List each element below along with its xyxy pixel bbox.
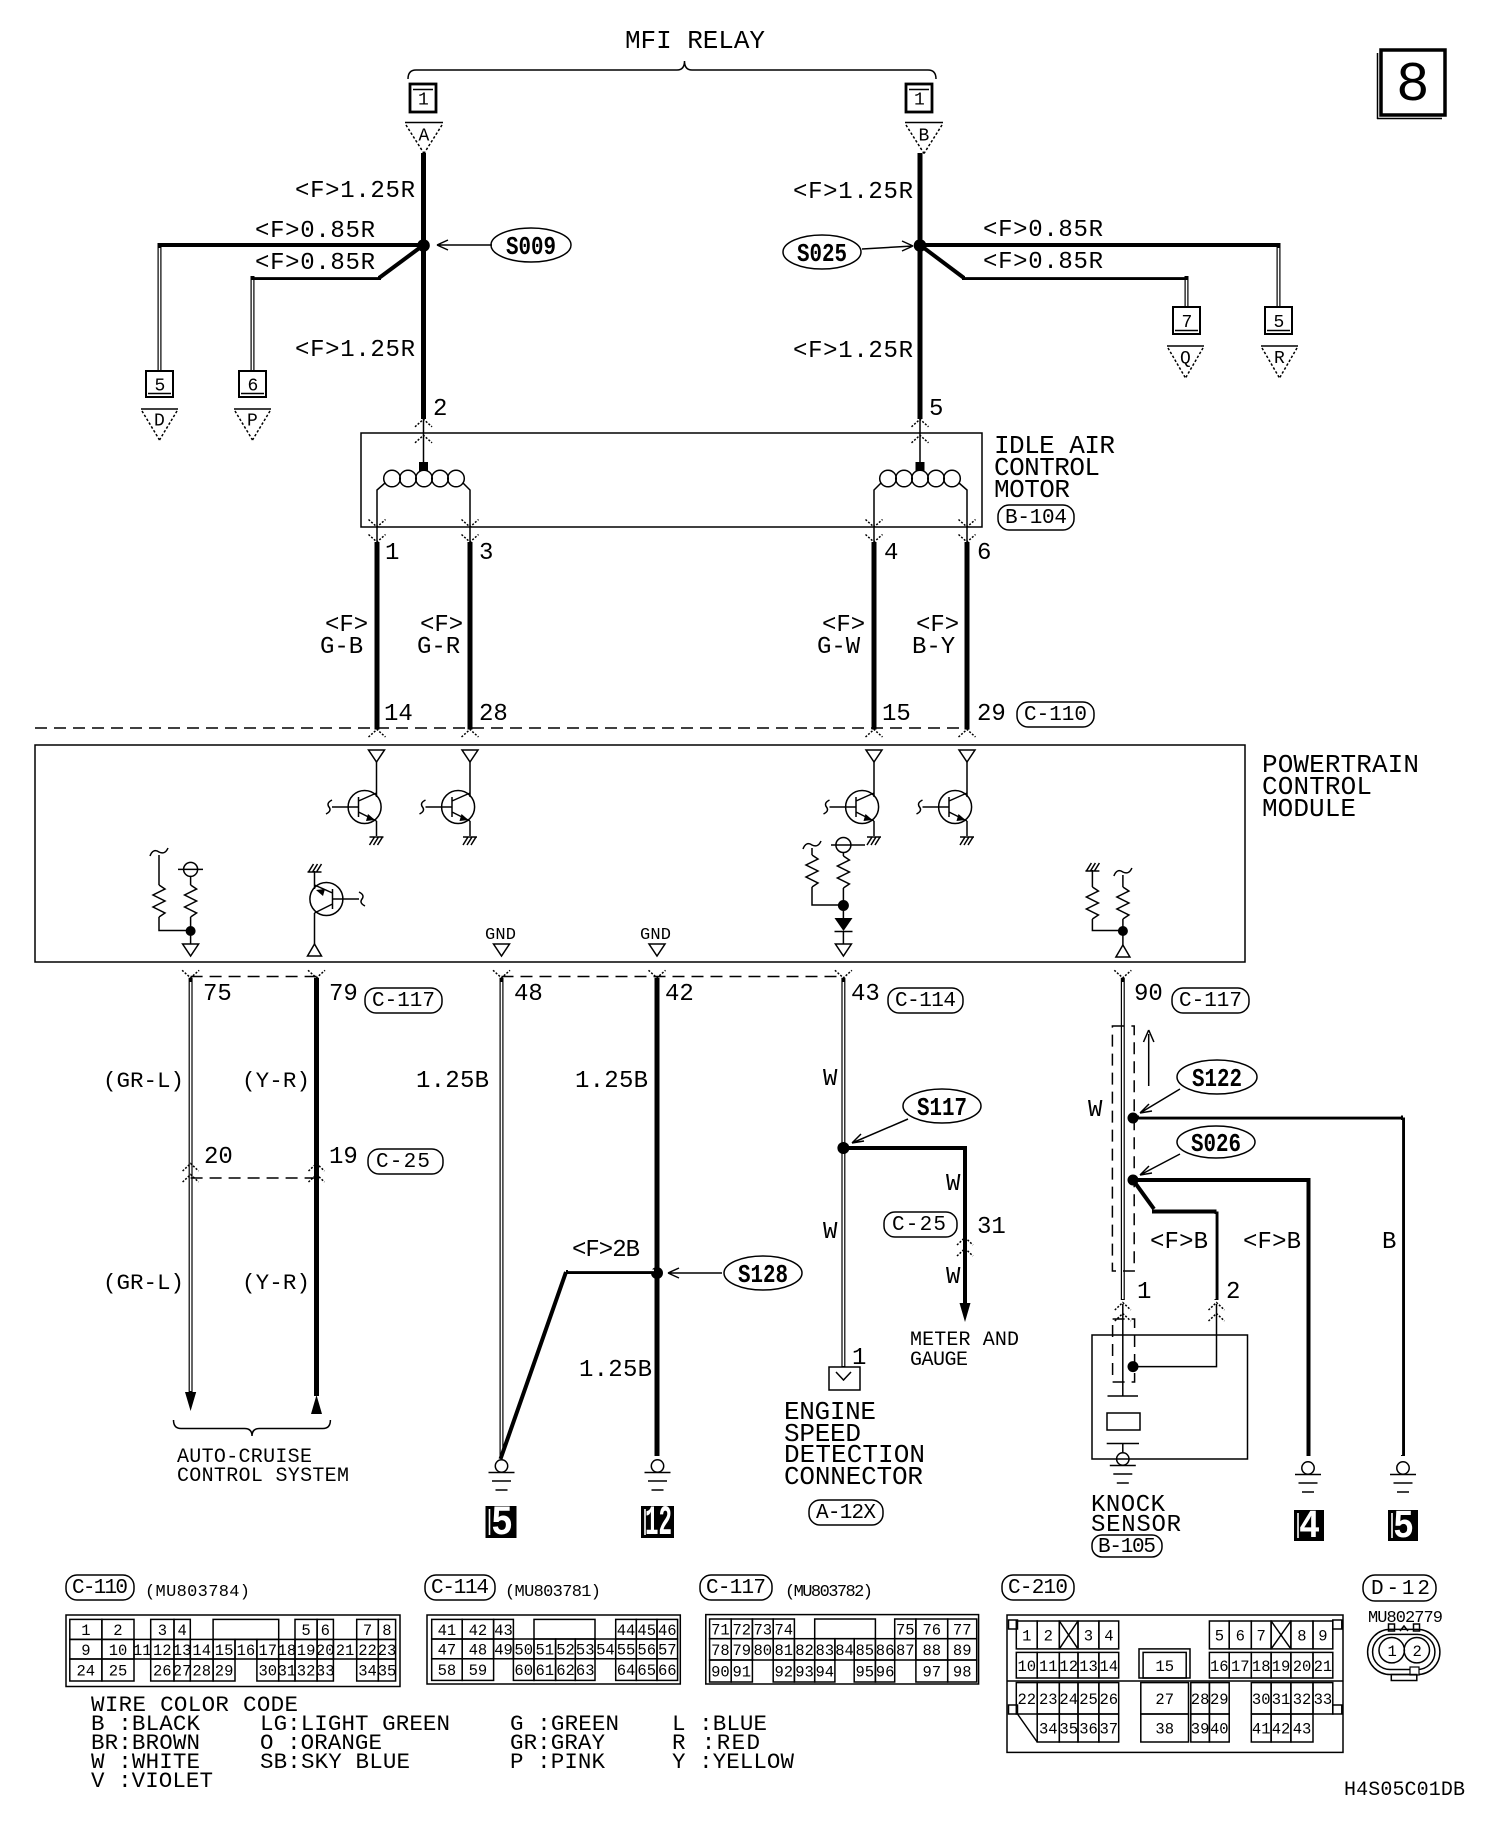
svg-text:W: W	[823, 1066, 838, 1093]
svg-text:18: 18	[278, 1642, 297, 1660]
svg-text:14: 14	[192, 1642, 211, 1660]
svg-text:(MU803782): (MU803782)	[785, 1583, 873, 1602]
svg-text:13: 13	[173, 1642, 192, 1660]
svg-text:6: 6	[977, 540, 991, 567]
svg-text:98: 98	[953, 1664, 972, 1682]
svg-text:(MU803784): (MU803784)	[145, 1583, 250, 1602]
svg-text:23: 23	[378, 1642, 397, 1660]
svg-text:C-114: C-114	[895, 990, 956, 1013]
svg-text:30: 30	[1252, 1691, 1271, 1709]
svg-text:8: 8	[1297, 1628, 1306, 1646]
svg-text:S128: S128	[738, 1260, 788, 1290]
svg-text:53: 53	[576, 1642, 595, 1660]
svg-text:10: 10	[1018, 1658, 1037, 1676]
svg-text:1.25B: 1.25B	[575, 1068, 648, 1095]
svg-text:34: 34	[1039, 1721, 1058, 1739]
svg-text:S122: S122	[1192, 1064, 1242, 1094]
svg-text:31: 31	[278, 1663, 297, 1681]
svg-text:28: 28	[1191, 1691, 1210, 1709]
svg-text:MODULE: MODULE	[1262, 794, 1356, 824]
svg-text:32: 32	[1293, 1691, 1312, 1709]
svg-text:79: 79	[733, 1642, 752, 1660]
svg-text:43: 43	[851, 981, 880, 1008]
svg-text:B-104: B-104	[1005, 507, 1067, 530]
svg-text:C-114: C-114	[431, 1577, 489, 1600]
svg-text:95: 95	[856, 1664, 875, 1682]
svg-text:62: 62	[556, 1662, 575, 1680]
svg-text:<F>0.85R: <F>0.85R	[983, 249, 1103, 276]
svg-text:5: 5	[491, 1499, 513, 1547]
svg-text:C-25: C-25	[376, 1151, 430, 1174]
svg-text:C-110: C-110	[1024, 704, 1087, 727]
svg-text:88: 88	[923, 1642, 942, 1660]
svg-text:25: 25	[109, 1663, 128, 1681]
svg-text:5: 5	[301, 1622, 310, 1640]
svg-text:<F>1.25R: <F>1.25R	[295, 178, 415, 205]
svg-text:20: 20	[1293, 1658, 1312, 1676]
svg-text:17: 17	[1231, 1658, 1250, 1676]
svg-text:26: 26	[1100, 1691, 1119, 1709]
svg-text:8: 8	[1396, 53, 1430, 117]
svg-text:89: 89	[953, 1642, 972, 1660]
svg-text:48: 48	[514, 981, 543, 1008]
svg-text:C-117: C-117	[372, 990, 435, 1013]
svg-text:37: 37	[1100, 1721, 1119, 1739]
svg-text:7: 7	[1257, 1628, 1266, 1646]
svg-text:10: 10	[109, 1642, 128, 1660]
svg-text:91: 91	[733, 1664, 752, 1682]
svg-text:<F>B: <F>B	[1150, 1229, 1208, 1256]
svg-text:6: 6	[1236, 1628, 1245, 1646]
svg-text:C-117: C-117	[706, 1577, 766, 1600]
svg-text:93: 93	[795, 1664, 814, 1682]
svg-text:24: 24	[77, 1663, 96, 1681]
svg-text:28: 28	[192, 1663, 211, 1681]
svg-text:97: 97	[923, 1664, 942, 1682]
svg-text:B: B	[919, 127, 930, 147]
svg-text:12: 12	[645, 1499, 672, 1547]
svg-text:4: 4	[884, 540, 898, 567]
svg-text:43: 43	[1293, 1721, 1312, 1739]
svg-text:1: 1	[385, 540, 399, 567]
svg-text:52: 52	[556, 1642, 575, 1660]
svg-text:14: 14	[1100, 1658, 1119, 1676]
svg-text:12: 12	[1059, 1658, 1078, 1676]
svg-text:90: 90	[1134, 981, 1163, 1008]
svg-text:40: 40	[1210, 1721, 1229, 1739]
svg-text:Y :YELLOW: Y :YELLOW	[672, 1749, 794, 1775]
svg-text:77: 77	[953, 1621, 972, 1639]
svg-text:GAUGE: GAUGE	[910, 1349, 968, 1372]
svg-text:54: 54	[596, 1642, 615, 1660]
svg-text:<F>2B: <F>2B	[572, 1237, 640, 1264]
svg-text:C-25: C-25	[892, 1214, 946, 1237]
svg-text:MFI RELAY: MFI RELAY	[625, 26, 765, 56]
svg-text:35: 35	[1059, 1721, 1078, 1739]
svg-text:79: 79	[329, 981, 358, 1008]
svg-text:78: 78	[711, 1642, 730, 1660]
svg-text:1: 1	[914, 91, 925, 111]
svg-text:C-117: C-117	[1179, 990, 1242, 1013]
svg-text:4: 4	[178, 1622, 187, 1640]
svg-text:CONNECTOR: CONNECTOR	[784, 1462, 923, 1492]
svg-text:R: R	[1274, 349, 1285, 369]
svg-text:5: 5	[155, 377, 166, 397]
svg-text:58: 58	[438, 1662, 457, 1680]
svg-text:83: 83	[816, 1642, 835, 1660]
svg-text:14: 14	[384, 701, 413, 728]
svg-text:49: 49	[494, 1642, 513, 1660]
svg-text:42: 42	[1272, 1721, 1291, 1739]
svg-text:7: 7	[1182, 313, 1193, 333]
svg-text:22: 22	[1018, 1691, 1037, 1709]
svg-text:S009: S009	[506, 232, 556, 262]
svg-text:94: 94	[816, 1664, 835, 1682]
svg-text:56: 56	[637, 1642, 656, 1660]
svg-text:33: 33	[1314, 1691, 1333, 1709]
svg-text:46: 46	[658, 1622, 677, 1640]
svg-text:1.25B: 1.25B	[416, 1068, 489, 1095]
svg-text:2: 2	[1226, 1279, 1240, 1306]
svg-text:27: 27	[173, 1663, 192, 1681]
svg-text:6: 6	[321, 1622, 330, 1640]
svg-text:43: 43	[494, 1622, 513, 1640]
svg-text:90: 90	[711, 1664, 730, 1682]
svg-text:72: 72	[733, 1621, 752, 1639]
svg-text:<F>1.25R: <F>1.25R	[793, 338, 913, 365]
svg-text:2: 2	[1413, 1643, 1422, 1661]
svg-text:45: 45	[637, 1622, 656, 1640]
svg-text:32: 32	[297, 1663, 316, 1681]
svg-text:18: 18	[1252, 1658, 1271, 1676]
svg-text:84: 84	[835, 1642, 854, 1660]
svg-text:19: 19	[329, 1144, 358, 1171]
svg-text:(GR-L): (GR-L)	[103, 1068, 184, 1094]
svg-text:60: 60	[514, 1662, 533, 1680]
svg-text:3: 3	[158, 1622, 167, 1640]
svg-text:15: 15	[1155, 1658, 1174, 1676]
svg-text:29: 29	[977, 701, 1006, 728]
svg-text:73: 73	[754, 1621, 773, 1639]
svg-text:63: 63	[576, 1662, 595, 1680]
svg-text:11: 11	[1039, 1658, 1058, 1676]
svg-text:<F>0.85R: <F>0.85R	[255, 218, 375, 245]
svg-text:MOTOR: MOTOR	[994, 475, 1070, 505]
svg-text:38: 38	[1155, 1721, 1174, 1739]
svg-text:22: 22	[358, 1642, 377, 1660]
svg-text:B-Y: B-Y	[912, 634, 955, 661]
svg-text:5: 5	[929, 396, 943, 423]
svg-text:1: 1	[81, 1622, 90, 1640]
svg-text:5: 5	[1215, 1628, 1224, 1646]
svg-text:31: 31	[977, 1214, 1006, 1241]
svg-text:G-R: G-R	[417, 634, 460, 661]
svg-text:23: 23	[1039, 1691, 1058, 1709]
svg-text:7: 7	[363, 1622, 372, 1640]
svg-text:5: 5	[1274, 313, 1285, 333]
svg-text:MU802779: MU802779	[1368, 1609, 1443, 1628]
svg-text:81: 81	[775, 1642, 794, 1660]
svg-text:48: 48	[469, 1642, 488, 1660]
svg-text:P :PINK: P :PINK	[510, 1749, 605, 1775]
svg-text:2: 2	[113, 1622, 122, 1640]
svg-text:50: 50	[514, 1642, 533, 1660]
svg-text:1: 1	[418, 91, 429, 111]
svg-text:9: 9	[81, 1642, 90, 1660]
svg-text:85: 85	[856, 1642, 875, 1660]
svg-text:GND: GND	[485, 926, 516, 945]
svg-text:80: 80	[754, 1642, 773, 1660]
svg-text:34: 34	[358, 1663, 377, 1681]
svg-text:4: 4	[1104, 1628, 1113, 1646]
svg-text:36: 36	[1079, 1721, 1098, 1739]
svg-text:A: A	[419, 127, 430, 147]
svg-text:33: 33	[316, 1663, 335, 1681]
svg-text:15: 15	[882, 701, 911, 728]
svg-text:75: 75	[896, 1621, 915, 1639]
svg-text:30: 30	[259, 1663, 278, 1681]
svg-text:26: 26	[153, 1663, 172, 1681]
svg-text:W: W	[946, 1264, 961, 1291]
svg-text:35: 35	[378, 1663, 397, 1681]
svg-text:15: 15	[215, 1642, 234, 1660]
svg-text:1.25B: 1.25B	[579, 1357, 652, 1384]
svg-text:3: 3	[479, 540, 493, 567]
svg-text:(MU803781): (MU803781)	[505, 1583, 601, 1602]
svg-text:42: 42	[469, 1622, 488, 1640]
svg-text:2: 2	[433, 396, 447, 423]
svg-text:4: 4	[1299, 1505, 1320, 1550]
svg-text:47: 47	[438, 1642, 457, 1660]
svg-text:(GR-L): (GR-L)	[103, 1270, 184, 1296]
svg-text:1: 1	[1137, 1279, 1151, 1306]
svg-text:1: 1	[852, 1345, 866, 1372]
svg-text:86: 86	[876, 1642, 895, 1660]
svg-text:76: 76	[923, 1621, 942, 1639]
svg-text:GND: GND	[640, 926, 671, 945]
svg-text:41: 41	[1252, 1721, 1271, 1739]
svg-text:(Y-R): (Y-R)	[242, 1068, 310, 1094]
svg-text:82: 82	[795, 1642, 814, 1660]
svg-text:S025: S025	[797, 239, 847, 269]
svg-text:S026: S026	[1191, 1129, 1241, 1159]
svg-text:W: W	[946, 1171, 961, 1198]
svg-text:B-105: B-105	[1098, 1536, 1156, 1559]
svg-text:<F>0.85R: <F>0.85R	[255, 250, 375, 277]
svg-text:8: 8	[382, 1622, 391, 1640]
svg-text:27: 27	[1155, 1691, 1174, 1709]
svg-text:(Y-R): (Y-R)	[242, 1270, 310, 1296]
svg-text:1: 1	[1022, 1628, 1031, 1646]
svg-text:V :VIOLET: V :VIOLET	[91, 1768, 213, 1794]
svg-text:21: 21	[336, 1642, 355, 1660]
svg-text:71: 71	[711, 1621, 730, 1639]
svg-text:19: 19	[1272, 1658, 1291, 1676]
svg-text:55: 55	[617, 1642, 636, 1660]
svg-text:S117: S117	[917, 1093, 967, 1123]
svg-text:21: 21	[1314, 1658, 1333, 1676]
svg-text:17: 17	[259, 1642, 278, 1660]
svg-text:51: 51	[536, 1642, 555, 1660]
svg-text:44: 44	[617, 1622, 636, 1640]
svg-text:SB:SKY BLUE: SB:SKY BLUE	[260, 1749, 410, 1775]
svg-text:H4S05C01DB: H4S05C01DB	[1344, 1779, 1465, 1802]
svg-text:59: 59	[469, 1662, 488, 1680]
svg-text:W: W	[1088, 1097, 1103, 1124]
svg-text:<F>1.25R: <F>1.25R	[295, 337, 415, 364]
svg-text:66: 66	[658, 1662, 677, 1680]
svg-text:<F>1.25R: <F>1.25R	[793, 179, 913, 206]
svg-text:65: 65	[637, 1662, 656, 1680]
svg-text:20: 20	[204, 1144, 233, 1171]
svg-text:Q: Q	[1180, 349, 1191, 369]
svg-text:74: 74	[775, 1621, 794, 1639]
svg-text:W: W	[823, 1219, 838, 1246]
svg-text:96: 96	[876, 1664, 895, 1682]
svg-text:C-210: C-210	[1008, 1577, 1068, 1600]
svg-text:16: 16	[237, 1642, 256, 1660]
svg-text:13: 13	[1079, 1658, 1098, 1676]
svg-text:D: D	[154, 412, 165, 432]
svg-text:11: 11	[133, 1642, 152, 1660]
svg-text:20: 20	[316, 1642, 335, 1660]
svg-text:P: P	[247, 412, 258, 432]
svg-text:B: B	[1382, 1229, 1396, 1256]
svg-text:9: 9	[1318, 1628, 1327, 1646]
svg-text:28: 28	[479, 701, 508, 728]
svg-text:75: 75	[203, 981, 232, 1008]
svg-text:16: 16	[1210, 1658, 1229, 1676]
svg-text:42: 42	[665, 981, 694, 1008]
svg-text:19: 19	[297, 1642, 316, 1660]
svg-text:41: 41	[438, 1622, 457, 1640]
svg-text:C-110: C-110	[72, 1577, 128, 1600]
svg-text:31: 31	[1272, 1691, 1291, 1709]
svg-text:87: 87	[896, 1642, 915, 1660]
svg-text:64: 64	[617, 1662, 636, 1680]
svg-text:29: 29	[1210, 1691, 1229, 1709]
svg-text:25: 25	[1079, 1691, 1098, 1709]
svg-text:39: 39	[1191, 1721, 1210, 1739]
svg-text:1: 1	[1388, 1643, 1397, 1661]
svg-text:G-W: G-W	[817, 634, 861, 661]
svg-text:57: 57	[658, 1642, 677, 1660]
svg-text:92: 92	[775, 1664, 794, 1682]
svg-text:<F>B: <F>B	[1243, 1229, 1301, 1256]
svg-text:<F>0.85R: <F>0.85R	[983, 217, 1103, 244]
svg-text:A-12X: A-12X	[816, 1502, 876, 1525]
svg-text:G-B: G-B	[320, 634, 363, 661]
svg-text:24: 24	[1059, 1691, 1078, 1709]
svg-text:3: 3	[1084, 1628, 1093, 1646]
svg-text:6: 6	[248, 377, 259, 397]
svg-text:2: 2	[1044, 1628, 1053, 1646]
svg-text:29: 29	[215, 1663, 234, 1681]
svg-text:5: 5	[1393, 1505, 1414, 1550]
svg-text:12: 12	[153, 1642, 172, 1660]
svg-text:CONTROL SYSTEM: CONTROL SYSTEM	[177, 1465, 349, 1488]
svg-text:61: 61	[536, 1662, 555, 1680]
